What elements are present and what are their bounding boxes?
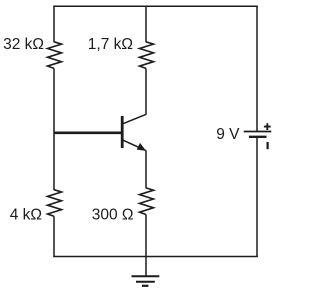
svg-text:1,7 kΩ: 1,7 kΩ <box>88 36 133 53</box>
ground bar 1 <box>132 275 160 277</box>
wire left rail lower <box>53 216 55 257</box>
ground bar 3 <box>142 285 149 287</box>
ground bar 2 <box>136 281 155 283</box>
wire base <box>54 132 121 135</box>
battery BT1 negative plate <box>249 136 267 138</box>
svg-text:300 Ω: 300 Ω <box>92 206 134 223</box>
svg-text:32 kΩ: 32 kΩ <box>3 36 44 53</box>
wire top rail <box>53 5 257 7</box>
svg-text:9 V: 9 V <box>216 126 240 143</box>
resistor R1 32k <box>48 42 62 69</box>
ground stub <box>145 257 147 277</box>
resistor R4 300 <box>140 188 154 215</box>
transistor Q1 emitter arrow <box>137 144 145 151</box>
transistor Q1 base bar <box>121 116 124 148</box>
wire emitter vertical <box>145 150 147 188</box>
transistor Q1 emitter diagonal <box>123 140 146 150</box>
wire bottom rail <box>53 256 257 258</box>
wire left rail middle <box>53 68 55 190</box>
svg-text:4 kΩ: 4 kΩ <box>10 206 42 223</box>
wire right rail lower <box>256 137 258 257</box>
wire left rail upper <box>53 6 55 43</box>
label battery minus <box>267 142 269 149</box>
battery BT1 positive plate <box>244 131 272 133</box>
resistor R2 4k <box>48 190 62 217</box>
wire right rail upper <box>256 6 258 132</box>
resistor R3 1,7k <box>140 42 154 69</box>
label battery plus <box>264 123 271 130</box>
wire middle branch top <box>145 6 147 43</box>
wire collector vertical <box>145 68 147 114</box>
wire emitter lower <box>145 215 147 257</box>
wire collector diagonal <box>123 114 146 123</box>
